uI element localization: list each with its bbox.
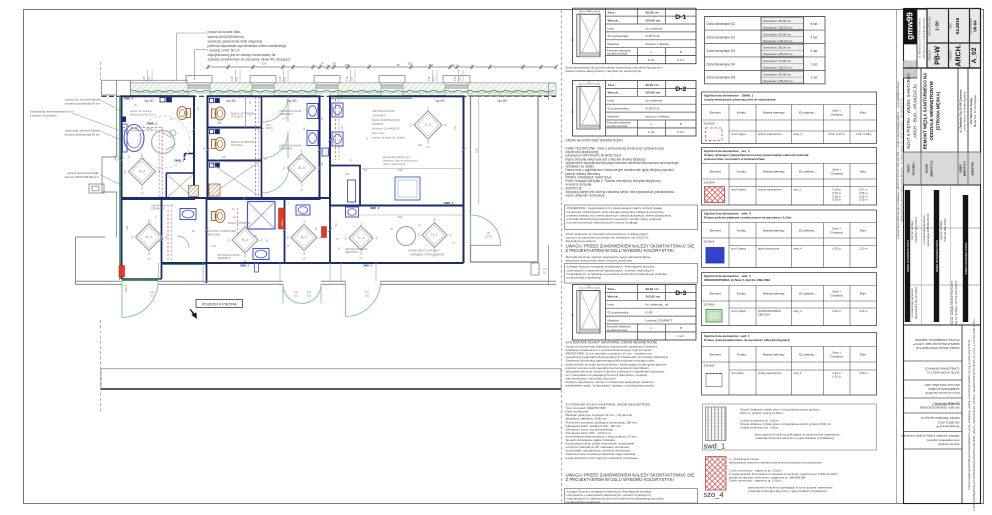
- svg-text:uprawnienia 1535/94/LOKK/II: uprawnienia 1535/94/LOKK/II: [927, 213, 930, 246]
- svg-text:115: 115: [453, 76, 457, 81]
- svg-text:167: 167: [147, 76, 151, 81]
- svg-text:gmw99: gmw99: [905, 12, 914, 40]
- svg-text:naczyń sanitarnych: naczyń sanitarnych: [383, 162, 406, 166]
- svg-text:Grubości: Grubości: [831, 294, 844, 298]
- svg-text:2 szt.: 2 szt.: [810, 49, 818, 53]
- svg-text:A_02: A_02: [971, 47, 978, 63]
- svg-text:SWL_1: SWL_1: [282, 218, 284, 226]
- svg-text:177: 177: [283, 117, 288, 121]
- svg-text:D,0: D,0: [365, 295, 369, 298]
- svg-text:116: 116: [345, 63, 350, 67]
- svg-text:167: 167: [283, 76, 287, 81]
- svg-text:Kondy...: Kondy...: [737, 228, 748, 232]
- svg-text:200 W: 200 W: [485, 235, 493, 238]
- svg-text:hp.90: hp.90: [145, 99, 154, 103]
- svg-text:Wys.: Wys.: [860, 110, 867, 114]
- svg-text:115: 115: [113, 155, 117, 160]
- svg-text:NUMER UPRAWNIEŃ PODPIS: NUMER UPRAWNIEŃ PODPIS: [907, 239, 910, 272]
- svg-text:167: 167: [350, 76, 354, 81]
- svg-text:3.00 m: 3.00 m: [859, 371, 868, 375]
- svg-text:KANAŁ WENTYLACYJNY: KANAŁ WENTYLACYJNY: [408, 249, 440, 253]
- svg-text:Grubości: Grubości: [831, 172, 844, 176]
- svg-text:46: 46: [338, 247, 341, 250]
- svg-text:C:/pracownia/projekty/2016/zaw: C:/pracownia/projekty/2016/zawiercie/szp…: [968, 339, 971, 490]
- svg-text:2 szt.: 2 szt.: [648, 58, 656, 62]
- svg-text:ściany wewnętrzne: ściany wewnętrzne: [758, 188, 782, 192]
- svg-text:CERAMIKA: CERAMIKA: [151, 207, 165, 211]
- svg-text:nr ew. 34 (k.m. 8) obręb Zawie: nr ew. 34 (k.m. 8) obręb Zawiercie: [962, 91, 966, 131]
- svg-text:115: 115: [142, 76, 146, 81]
- svg-text:REMONT WĘZŁA SANITARNEGO NA: REMONT WĘZŁA SANITARNEGO NA: [923, 72, 928, 149]
- svg-text:kolor: kolor: [608, 99, 615, 103]
- svg-text:A-1: A-1: [146, 234, 153, 239]
- svg-text:wzoru usłojenia i kolorystyki.: wzoru usłojenia i kolorystyki.: [566, 194, 606, 198]
- svg-text:Drzwi drewniane D1: Drzwi drewniane D1: [707, 22, 736, 26]
- svg-text:343: 343: [418, 143, 423, 147]
- svg-text:ścienna (600x300x90mm): ścienna (600x300x90mm): [208, 35, 244, 39]
- svg-text:Kierunek otwierania: Kierunek otwierania: [607, 121, 631, 125]
- svg-text:102: 102: [194, 217, 197, 222]
- svg-text:Wysokość: 205,00 cm: Wysokość: 205,00 cm: [763, 66, 793, 70]
- svg-text:rzut parter...: rzut parter...: [731, 371, 746, 375]
- svg-text:3: 3: [303, 251, 306, 256]
- svg-text:102: 102: [345, 172, 350, 176]
- svg-text:Myjnie-dezynfektory do: Myjnie-dezynfektory do: [383, 155, 410, 159]
- svg-text:NIP 649-000-00-00 REGON 2400: NIP 649-000-00-00 REGON 240000000: [924, 17, 926, 58]
- svg-text:P: P: [680, 326, 682, 330]
- svg-text:CERAMIKA: CERAMIKA: [279, 112, 293, 116]
- svg-text:2: 2: [131, 235, 134, 240]
- svg-text:swd_4: swd_4: [794, 247, 803, 251]
- svg-text:do ustalenia: do ustalenia: [646, 99, 663, 103]
- svg-text:basenów i kaczek oraz innych: basenów i kaczek oraz innych: [383, 158, 418, 162]
- svg-text:BRANŻA: BRANŻA: [949, 50, 952, 60]
- svg-text:1: 1: [141, 153, 144, 158]
- svg-text:MISKA USTĘPOWA: MISKA USTĘPOWA: [228, 222, 251, 225]
- svg-text:Element: Element: [710, 352, 721, 356]
- svg-text:pł0: pł0: [300, 188, 304, 192]
- svg-text:L: L: [651, 122, 653, 126]
- svg-text:120: 120: [212, 245, 217, 248]
- svg-text:175: 175: [297, 158, 302, 161]
- svg-text:Nazwa warstwy: Nazwa warstwy: [763, 291, 785, 295]
- svg-text:mgr inż. architekt KATARZYNA: mgr inż. architekt KATARZYNA BŁOCH: [951, 281, 954, 325]
- svg-text:Wymiary: 610x440x226: Wymiary: 610x440x226: [372, 127, 400, 131]
- svg-text:12: 12: [350, 159, 353, 162]
- svg-text:8,00 cm_grubość ściany 11,00cm: 8,00 cm_grubość ściany 11,00cm: [740, 411, 783, 415]
- svg-text:INWESTOR:: INWESTOR:: [972, 161, 975, 175]
- svg-text:HUBERT WOLAŃSKI: HUBERT WOLAŃSKI: [944, 218, 947, 242]
- svg-text:2.03 / 3.16m: 2.03 / 3.16m: [855, 132, 871, 136]
- svg-text:36: 36: [321, 117, 324, 120]
- svg-text:216: 216: [454, 125, 457, 130]
- svg-text:381: 381: [408, 61, 413, 65]
- svg-text:328: 328: [262, 61, 267, 65]
- svg-text:1: 1: [148, 218, 151, 223]
- svg-text:rzut II piętra: rzut II piętra: [731, 132, 746, 136]
- svg-text:wskaźnikiem stanu "wolne/zajęt: wskaźnikiem stanu "wolne/zajęte" zawiasy…: [566, 384, 655, 388]
- svg-text:205: 205: [571, 109, 575, 114]
- svg-text:8 N: 8 N: [543, 268, 547, 271]
- svg-text:Szerokość: 94,00 cm: Szerokość: 94,00 cm: [763, 32, 792, 36]
- svg-text:Wys.: Wys.: [860, 352, 867, 356]
- svg-text:Nazwa warstwy: Nazwa warstwy: [763, 352, 785, 356]
- svg-text:oraz materiałów uzgodnić: oraz materiałów uzgodnić: [926, 438, 959, 442]
- svg-text:Kondy...: Kondy...: [737, 352, 748, 356]
- svg-text:2: 2: [286, 235, 289, 240]
- svg-text:SUITE X4 DRV-W23-YCJ: SUITE X4 DRV-W23-YCJ: [926, 371, 959, 375]
- svg-text:203,00 cm: 203,00 cm: [646, 295, 661, 299]
- svg-text:po akceptacji projektanta): po akceptacji projektanta): [567, 275, 602, 279]
- svg-text:45: 45: [254, 235, 257, 238]
- svg-text:Element: Element: [710, 228, 721, 232]
- svg-text:8 N: 8 N: [365, 291, 369, 294]
- svg-text:1: 1: [303, 219, 306, 224]
- svg-text:205: 205: [571, 36, 575, 41]
- svg-text:SWW_4: SWW_4: [210, 125, 220, 128]
- svg-text:P: P: [680, 122, 682, 126]
- svg-text:0.04 / 0.16 m: 0.04 / 0.16 m: [829, 132, 846, 136]
- svg-text:Grubości: Grubości: [831, 355, 844, 359]
- svg-text:ID użytkow...: ID użytkow...: [799, 110, 817, 114]
- svg-text:3 tynk cementowo - wapienny gr: 3 tynk cementowo - wapienny gr. 2,00cm: [729, 479, 782, 483]
- svg-text:1: 1: [427, 106, 430, 111]
- svg-text:RZUT II PIĘTRA - WĘZEŁ SANITAR: RZUT II PIĘTRA - WĘZEŁ SANITARNY: [906, 73, 911, 149]
- svg-text:Szer.:: Szer.:: [608, 83, 616, 87]
- svg-text:NR SER.C-4103: NR SER.C-4103: [938, 420, 960, 424]
- svg-text:sww_1: sww_1: [794, 132, 803, 136]
- svg-text:204,00 cm: 204,00 cm: [646, 91, 661, 95]
- svg-text:zestawie podtynkowym do zabudo: zestawie podtynkowym do zabudowy; misek …: [208, 58, 291, 62]
- svg-text:90: 90: [266, 239, 269, 242]
- svg-text:SWW_1: SWW_1: [146, 128, 155, 131]
- svg-text:C-2: C-2: [425, 122, 432, 127]
- svg-text:Z PROJEKTANTEM W CELU WYBORU K: Z PROJEKTANTEM W CELU WYBORU KOLORYSTYKI: [566, 477, 674, 482]
- svg-text:2: 2: [409, 123, 412, 128]
- svg-text:D-2P D-2L: D-2P D-2L: [646, 107, 661, 111]
- svg-text:ODDZIALE WEWNĘTRZNYM: ODDZIALE WEWNĘTRZNYM: [929, 81, 934, 141]
- svg-text:Wysokość: 205,00 cm: Wysokość: 205,00 cm: [763, 25, 793, 29]
- svg-text:pracownia projektowa: tel. ko: pracownia projektowa: tel. kontaktowy +4…: [896, 81, 900, 239]
- svg-text:9: 9: [155, 216, 157, 219]
- svg-text:swd_1: swd_1: [794, 371, 803, 375]
- svg-text:POZIOM II PIĘTRA: POZIOM II PIĘTRA: [202, 301, 237, 306]
- svg-text:hp.90: hp.90: [227, 99, 236, 103]
- svg-text:autorem projektu: autorem projektu: [937, 442, 959, 446]
- svg-text:jakiekolwiek kopiowanie bez zg: jakiekolwiek kopiowanie bez zgody autora…: [900, 98, 903, 223]
- svg-text:Kondy...: Kondy...: [737, 291, 748, 295]
- svg-text:Wysokość: 205,00 cm: Wysokość: 205,00 cm: [763, 39, 793, 43]
- svg-text:04.2016: 04.2016: [955, 17, 960, 34]
- svg-text:Drzwi drewniane D3: Drzwi drewniane D3: [707, 49, 736, 53]
- svg-text:SWD_1: SWD_1: [210, 158, 219, 161]
- svg-text:0.02 m: 0.02 m: [832, 247, 841, 251]
- svg-text:UWAGA: wszelkie zmiany projekt: UWAGA: wszelkie zmiany projekty niezgodn…: [901, 434, 960, 438]
- svg-text:167: 167: [235, 76, 239, 81]
- svg-text:3: 3: [148, 251, 151, 256]
- svg-text:NUMER UPRAWNIEŃ PODPIS: NUMER UPRAWNIEŃ PODPIS: [965, 242, 968, 275]
- svg-text:Kondy...: Kondy...: [737, 110, 748, 114]
- svg-text:10: 10: [366, 137, 369, 140]
- svg-text:PAKIET SPECBUD wersja 9.0: PAKIET SPECBUD wersja 9.0: [920, 416, 959, 420]
- svg-text:do ustalenia_ ral: do ustalenia_ ral: [646, 303, 669, 307]
- svg-text:4: 4: [165, 235, 168, 240]
- svg-text:RYSUNKU:: RYSUNKU:: [912, 162, 916, 176]
- svg-text:Wysokość: 205,00 cm: Wysokość: 205,00 cm: [763, 79, 793, 83]
- svg-text:SWL 3: SWL 3: [125, 284, 128, 292]
- svg-text:204: 204: [398, 215, 403, 219]
- svg-text:Kierunek otwierania: Kierunek otwierania: [607, 48, 631, 52]
- svg-text:115: 115: [230, 76, 234, 81]
- svg-text:B-1: B-1: [301, 235, 308, 240]
- svg-text:P: P: [680, 50, 682, 54]
- svg-text:uchylna [odchylana] 60 cm: uchylna [odchylana] 60 cm: [64, 102, 100, 106]
- svg-text:Umywalka dla niepełnosprawnych: Umywalka dla niepełnosprawnych 65 cm: [30, 111, 73, 114]
- svg-text:Element: Element: [710, 110, 721, 114]
- svg-text:ścienna (600x300x90mm): ścienna (600x300x90mm): [64, 175, 99, 179]
- svg-text:z otworem, bez przelewu: z otworem, bez przelewu: [30, 115, 57, 118]
- svg-text:16: 16: [418, 224, 421, 227]
- svg-text:204,00 cm: 204,00 cm: [646, 18, 661, 22]
- svg-text:90,00 cm: 90,00 cm: [646, 287, 659, 291]
- svg-text:4: 4: [375, 236, 378, 241]
- svg-text:Szerokość: 80,00 cm: Szerokość: 80,00 cm: [763, 46, 792, 50]
- svg-text:CORELDRAW GRAPHICS: CORELDRAW GRAPHICS: [925, 366, 960, 370]
- svg-text:Proof of License 012-8879: Proof of License 012-8879: [925, 391, 959, 395]
- svg-text:94: 94: [192, 230, 195, 233]
- svg-text:drewno z okleiną: drewno z okleiną: [646, 42, 669, 46]
- svg-text:0.05 m: 0.05 m: [832, 198, 841, 202]
- svg-text:Wys.: Wys.: [860, 228, 867, 232]
- svg-text:2 szt.: 2 szt.: [677, 130, 685, 134]
- svg-text:L: L: [651, 50, 653, 54]
- svg-text:90,00 cm: 90,00 cm: [646, 11, 659, 15]
- svg-text:x: x: [288, 202, 290, 205]
- svg-text:24: 24: [320, 61, 324, 65]
- svg-text:SWW_1: SWW_1: [147, 122, 157, 126]
- svg-text:Ściany pokryte płytkami cerami: Ściany pokryte płytkami ceramicznymi na …: [704, 215, 792, 220]
- svg-text:Grubości: Grubości: [831, 113, 844, 117]
- svg-text:ściany wewnętrzne: ściany wewnętrzne: [758, 371, 782, 375]
- svg-text:BRODZIK Z ZABUDOWĄ: BRODZIK Z ZABUDOWĄ: [207, 229, 237, 233]
- svg-text:NUMER UPRAWNIEŃ PODPIS: NUMER UPRAWNIEŃ PODPIS: [936, 239, 939, 272]
- svg-text:1 szt.: 1 szt.: [810, 62, 818, 66]
- svg-text:kolor szary: kolor szary: [372, 131, 385, 135]
- svg-text:ID użytkow...: ID użytkow...: [799, 291, 817, 295]
- svg-text:kolor: kolor: [608, 303, 615, 307]
- svg-text:D-1: D-1: [675, 14, 686, 21]
- svg-text:pł0: pł0: [359, 256, 363, 260]
- svg-text:3.10 m: 3.10 m: [859, 247, 868, 251]
- svg-text:SWD_4: SWD_4: [302, 95, 311, 99]
- svg-text:ID użytkownika: ID użytkownika: [608, 34, 629, 38]
- svg-text:SWD_4: SWD_4: [124, 96, 133, 100]
- svg-text:3: 3: [300, 183, 303, 188]
- svg-text:115: 115: [278, 76, 282, 81]
- svg-text:Wysok...: Wysok...: [608, 295, 621, 299]
- svg-text:52: 52: [232, 208, 235, 211]
- svg-text:NAZWA: NAZWA: [925, 164, 929, 174]
- svg-text:4: 4: [444, 123, 447, 128]
- svg-text:zamurowanie otworów materiał p: zamurowanie otworów materiał powszechnie…: [729, 461, 822, 465]
- svg-text:swd_1: swd_1: [704, 442, 726, 451]
- svg-text:L: L: [651, 326, 653, 330]
- svg-text:ANDRZEJ WOLAŃSKI: ANDRZEJ WOLAŃSKI: [915, 217, 918, 243]
- svg-text:2: 2: [283, 166, 286, 171]
- svg-text:hp.90: hp.90: [436, 99, 445, 103]
- svg-text:pł0: pł0: [302, 257, 306, 261]
- svg-text:Drzwi drewniane D4: Drzwi drewniane D4: [707, 62, 736, 66]
- svg-text:214: 214: [126, 225, 129, 230]
- svg-text:8 N: 8 N: [150, 291, 154, 294]
- svg-text:ODRĘBNE OPRACOWANIE: ODRĘBNE OPRACOWANIE: [410, 253, 445, 257]
- svg-text:3.10 m: 3.10 m: [859, 309, 868, 313]
- svg-text:SWW_1: SWW_1: [174, 159, 184, 163]
- svg-text:(materiały dotyczące danej fir: (materiały dotyczące danej firmy mają ch…: [755, 436, 834, 440]
- svg-text:SCIANA: SCIANA: [704, 363, 715, 367]
- svg-text:115: 115: [345, 76, 349, 81]
- svg-text:SCIANA: SCIANA: [704, 239, 715, 243]
- svg-text:Microsoft Office Basic 2007: Microsoft Office Basic 2007: [924, 383, 960, 387]
- svg-text:205: 205: [571, 313, 575, 318]
- svg-text:Kierunek otwierania: Kierunek otwierania: [607, 325, 631, 329]
- svg-text:ZIELONA: ZIELONA: [758, 313, 770, 317]
- svg-text:szo_4: szo_4: [704, 490, 724, 499]
- svg-text:216: 216: [475, 148, 479, 153]
- svg-text:w pomieszczeniach wykończonych: w pomieszczeniach wykończonych (ściany i…: [567, 220, 638, 224]
- svg-text:po akceptacji projektanta): po akceptacji projektanta): [567, 500, 600, 504]
- svg-text:00-64: 00-64: [973, 20, 978, 32]
- svg-text:mgr inż. architekt: mgr inż. architekt: [911, 220, 914, 239]
- svg-text:ul. Wierzbowa 16/18, 42-400 Z: ul. Wierzbowa 16/18, 42-400 Zawiercie: [918, 17, 921, 57]
- svg-text:drewno z okleiną: drewno z okleiną: [646, 114, 669, 118]
- svg-text:6 szt.: 6 szt.: [810, 22, 818, 26]
- svg-text:2: 2: [417, 233, 420, 238]
- svg-text:łukowa uchylna 75 cm: łukowa uchylna 75 cm: [130, 112, 156, 116]
- svg-text:3: 3: [360, 251, 363, 256]
- svg-text:Wys.: Wys.: [860, 169, 867, 173]
- svg-text:Wys.: Wys.: [860, 291, 867, 295]
- svg-text:1 szt.: 1 szt.: [810, 76, 818, 80]
- svg-text:200 W: 200 W: [266, 127, 274, 130]
- svg-text:Szerokość: 80,00 cm: Szerokość: 80,00 cm: [763, 19, 792, 23]
- svg-text:90,00 cm: 90,00 cm: [646, 83, 659, 87]
- svg-text:hp.90: hp.90: [498, 99, 507, 103]
- svg-text:ARCH.: ARCH.: [955, 44, 962, 66]
- svg-text:PAKIET ARCAD START/EDITION: PAKIET ARCAD START/EDITION: [916, 346, 959, 350]
- svg-text:C-1: C-1: [358, 235, 365, 240]
- svg-text:65: 65: [134, 104, 137, 107]
- svg-text:dalszą częścią usługi powinny: dalszą częścią usługi powinny zamykać si…: [566, 69, 643, 73]
- svg-text:115: 115: [427, 76, 431, 81]
- svg-text:Wysok...: Wysok...: [608, 18, 621, 22]
- svg-text:INWESTYCJI:: INWESTYCJI:: [930, 160, 934, 177]
- svg-text:POLISH COMMERCIAL VERSION: POLISH COMMERCIAL VERSION: [915, 338, 960, 342]
- svg-text:SCIANA: SCIANA: [704, 302, 715, 306]
- svg-text:B-2: B-2: [242, 237, 249, 242]
- svg-text:90: 90: [303, 127, 306, 130]
- svg-text:pł0: pł0: [140, 191, 144, 195]
- svg-text:1: 1: [360, 221, 363, 226]
- svg-text:do ustalenia: do ustalenia: [646, 26, 663, 30]
- svg-text:ID użytkownika: ID użytkownika: [608, 107, 629, 111]
- svg-text:ściany wewnętrzne: ściany wewnętrzne: [758, 132, 782, 136]
- svg-text:A-2: A-2: [139, 169, 146, 174]
- svg-text:dla dopływu powietrza.: dla dopływu powietrza.: [566, 239, 597, 243]
- svg-text:rzut II piętra: rzut II piętra: [731, 188, 746, 192]
- svg-text:4 szt.: 4 szt.: [810, 35, 818, 39]
- svg-text:Z PROJEKTANTEM W CELU WYBORU K: Z PROJEKTANTEM W CELU WYBORU KOLORYSTYKI: [566, 248, 674, 253]
- svg-text:0.02 m: 0.02 m: [832, 309, 841, 313]
- svg-text:42: 42: [335, 223, 338, 226]
- svg-text:D-3P: D-3P: [646, 311, 653, 315]
- svg-text:mgr inż. architekt LUCYNA WOL: mgr inż. architekt LUCYNA WOLAŃSKA: [955, 280, 958, 325]
- svg-text:173: 173: [341, 125, 344, 130]
- svg-text:Grubości: Grubości: [831, 231, 844, 235]
- svg-text:43: 43: [287, 245, 290, 248]
- svg-text:36: 36: [396, 63, 400, 67]
- svg-text:76: 76: [203, 147, 206, 150]
- svg-text:CERAMIKA: CERAMIKA: [372, 113, 386, 117]
- svg-text:ADRES: ADRES: [959, 164, 962, 173]
- svg-text:powszechnie stosowany w budown: powszechnie stosowany w budownictwie: [704, 157, 765, 161]
- svg-text:WODOODPORNA 12,5mm 1,2x2,6m ZI: WODOODPORNA 12,5mm 1,2x2,6m ZIELONA: [704, 278, 771, 282]
- svg-text:TEMAT: TEMAT: [907, 164, 911, 173]
- svg-text:STOJĄCA: STOJĄCA: [231, 115, 243, 119]
- svg-text:Drzwi drewniane D2: Drzwi drewniane D2: [707, 35, 736, 39]
- svg-text:OBUDOWA: OBUDOWA: [207, 232, 221, 236]
- svg-text:36: 36: [315, 227, 318, 230]
- svg-text:8 N: 8 N: [294, 291, 298, 294]
- svg-text:75: 75: [452, 242, 455, 245]
- svg-text:SCIANA: SCIANA: [704, 180, 715, 184]
- svg-text:nr ewidencyjny uprawnień: nr ewidencyjny uprawnień: [911, 288, 914, 317]
- svg-text:38: 38: [321, 162, 324, 165]
- svg-text:SWD_4: SWD_4: [336, 95, 345, 99]
- svg-text:D-2P D-2L: D-2P D-2L: [646, 34, 661, 38]
- svg-text:1: 1: [300, 149, 303, 154]
- svg-text:B-3: B-3: [298, 165, 305, 170]
- svg-text:167: 167: [432, 76, 436, 81]
- svg-text:3 szt.: 3 szt.: [677, 334, 685, 338]
- svg-text:Laminat COMPACT: Laminat COMPACT: [646, 318, 673, 322]
- svg-text:D,0: D,0: [294, 295, 298, 298]
- svg-text:C:/PRACOWNIA/PROJEKTY/2016/ZAW: C:/PRACOWNIA/PROJEKTY/2016/ZAWIERCIE/SZP…: [973, 319, 976, 511]
- svg-text:36: 36: [249, 101, 252, 104]
- svg-text:1: 1: [433, 217, 436, 222]
- svg-text:CERAMIKA: CERAMIKA: [279, 147, 293, 151]
- svg-text:pł0: pł0: [243, 259, 247, 263]
- svg-text:Szer.:: Szer.:: [608, 11, 616, 15]
- svg-text:3 płytki ceramiczne gr. 1,50cm: 3 płytki ceramiczne gr. 1,50cm: [740, 425, 779, 429]
- svg-text:ARCH - BUD., ARANŻACJA: ARCH - BUD., ARANŻACJA: [913, 84, 918, 138]
- svg-text:Materiał: Materiał: [608, 318, 619, 322]
- svg-text:fabrycznie wykończone wraz z f: fabrycznie wykończone wraz z futryną opa…: [566, 259, 633, 263]
- svg-text:INWESTYCJI:: INWESTYCJI:: [964, 161, 967, 177]
- svg-text:Element: Element: [710, 291, 721, 295]
- svg-text:24: 24: [332, 61, 336, 65]
- svg-text:222: 222: [222, 156, 227, 159]
- svg-text:D-1: D-1: [431, 232, 438, 237]
- svg-text:Wysokość: 205,00 cm: Wysokość: 205,00 cm: [763, 52, 793, 56]
- svg-text:zaprojektowany jest wc wiszący: zaprojektowany jest wc wiszący zamocowan…: [208, 53, 276, 57]
- svg-text:Szer.:: Szer.:: [608, 287, 616, 291]
- svg-text:SWD_4: SWD_4: [363, 264, 372, 268]
- svg-text:3: 3: [244, 254, 247, 259]
- svg-text:3: 3: [427, 140, 430, 145]
- svg-text:Materiał: Materiał: [608, 114, 619, 118]
- svg-text:SCIANA: SCIANA: [704, 121, 715, 125]
